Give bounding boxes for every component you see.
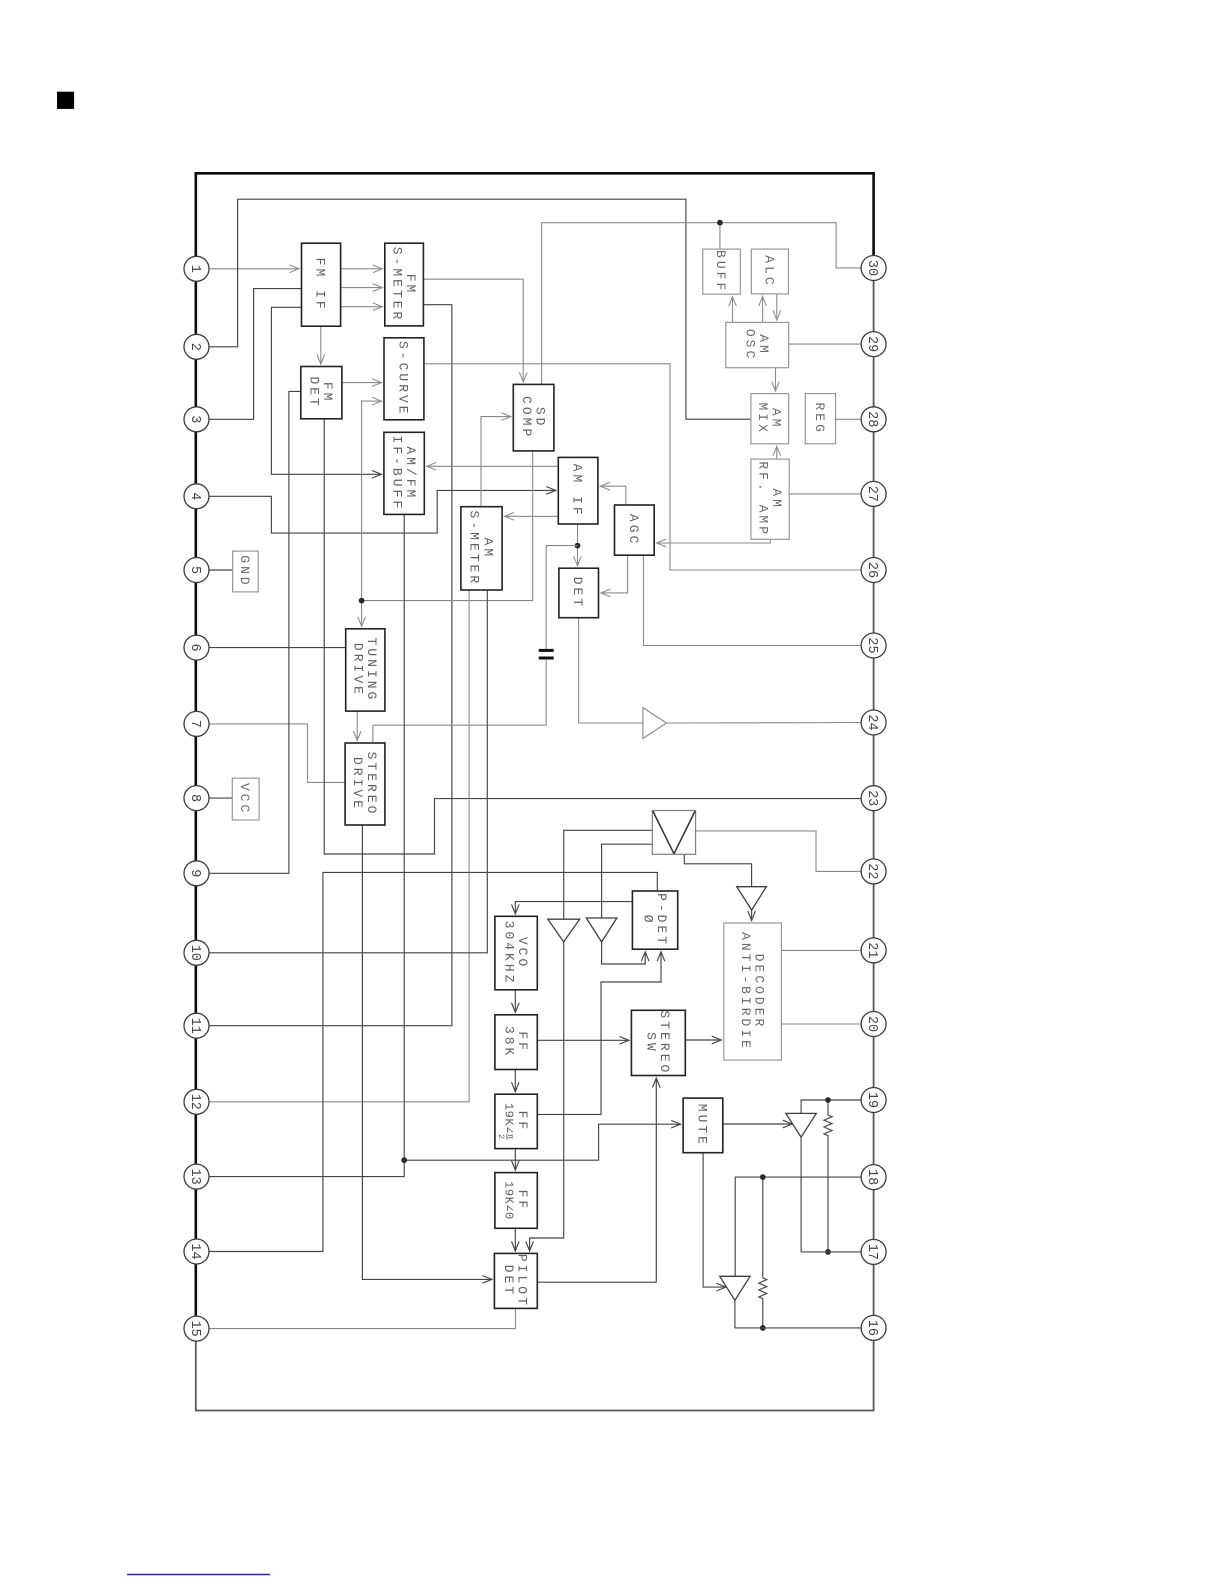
svg-text:REG: REG: [812, 402, 827, 434]
svg-text:12: 12: [187, 1094, 202, 1110]
block FF 19K pi/2: [495, 1094, 537, 1148]
pin 30: [861, 256, 886, 281]
wire inverter B3 to DECODER: [751, 910, 753, 920]
wire pin7 to STEREO DRIVE: [197, 724, 346, 783]
pin 11: [184, 1013, 209, 1038]
block GND: [233, 551, 259, 592]
pin 29: [861, 332, 886, 357]
wire DECODER to pin21: [781, 949, 860, 951]
junction pin16 node: [760, 1325, 766, 1331]
wire amplifier A1 to pin24: [667, 722, 874, 725]
wire AM IF to DET: [577, 524, 579, 566]
wire amplifier A2 to pin19: [801, 1100, 874, 1113]
amplifier A3: [720, 1276, 750, 1300]
wire SD COMP to tuning net: [362, 451, 533, 601]
junction tuning net: [359, 598, 365, 604]
pin 10: [184, 940, 209, 965]
wire pin3 to FM IF: [197, 289, 302, 420]
pin 5: [184, 558, 209, 583]
pin 7: [184, 711, 209, 736]
block VCC: [232, 778, 259, 820]
block AM S-METER: [461, 507, 502, 590]
svg-text:17: 17: [864, 1244, 879, 1260]
svg-text:8: 8: [187, 794, 202, 802]
inverter B3: [737, 887, 767, 910]
wire AM OSC to AM MIX: [775, 368, 777, 391]
pin 24: [861, 710, 886, 735]
wire AM IF to AM S-METER: [505, 515, 559, 517]
svg-text:11: 11: [187, 1018, 202, 1034]
wire AM S-METER to pin10: [197, 590, 488, 953]
svg-text:S-CURVE: S-CURVE: [395, 341, 410, 417]
block TUNING DRIVE: [346, 629, 385, 711]
wire resistor R2 to pin16 net: [762, 1300, 764, 1328]
IC outline (thick part): [196, 173, 874, 1338]
block STEREO SW: [631, 1010, 685, 1075]
svg-text:13: 13: [187, 1168, 202, 1184]
wire FM IF to FM S-METER 3: [341, 306, 383, 308]
wire TUNING DRIVE to STEREO DRIVE: [356, 711, 358, 740]
block P-DET: [632, 891, 677, 949]
wire node to capacitor C1: [546, 546, 577, 649]
wire amplifier A3 to pin16 net: [734, 1300, 736, 1328]
wire pin8 to VCC: [197, 797, 233, 799]
capacitor C1: [539, 650, 554, 658]
svg-text:19K∠: 19K∠: [501, 1103, 515, 1134]
svg-text:ALC: ALC: [761, 255, 776, 287]
svg-text:1: 1: [187, 265, 202, 273]
wire FF 38K to FF 19K-pi2: [514, 1070, 516, 1092]
wire AM OSC to ALC: [762, 296, 764, 322]
svg-text:18: 18: [864, 1169, 879, 1185]
svg-text:30: 30: [864, 260, 879, 276]
pin 25: [861, 633, 886, 658]
block AM RF AMP: [751, 459, 789, 539]
svg-text:4: 4: [187, 492, 202, 500]
wire FF 19K-pi2 to FF 19K-0: [514, 1149, 516, 1171]
block REG: [805, 394, 835, 444]
svg-text:20: 20: [864, 1016, 879, 1032]
wire FM IF to FM S-METER 2: [341, 287, 383, 289]
svg-text:2: 2: [187, 343, 202, 351]
block FM DET: [301, 367, 342, 419]
wire AGC to DET: [601, 555, 628, 593]
wire MUTE to amplifier A2: [723, 1123, 793, 1125]
wire pin9 to FM DET: [197, 391, 301, 873]
wire mute node to MUTE: [404, 1124, 680, 1160]
wire pin2 to AM MIX: [197, 199, 751, 419]
pin 17: [861, 1239, 886, 1264]
pin 26: [861, 558, 886, 583]
footer rule: [127, 1574, 270, 1576]
filter FL1: [652, 811, 695, 855]
wire pin17 to amplifier A2: [801, 1251, 874, 1253]
pin 28: [861, 407, 886, 432]
pin 2: [184, 334, 209, 359]
svg-text:STEREODRIVE: STEREODRIVE: [350, 752, 379, 817]
wire pin4 to AM IF: [197, 490, 556, 533]
wire inverter B1 to PILOT DET: [530, 942, 564, 1251]
svg-text:19: 19: [864, 1092, 879, 1108]
wire AM OSC to BUFF: [732, 297, 734, 323]
IC outline (thin part): [196, 268, 874, 1411]
pin 14: [184, 1239, 209, 1264]
svg-text:25: 25: [864, 637, 879, 653]
block BUFF: [703, 249, 741, 294]
wire tuning net to TUNING DRIVE: [361, 601, 363, 627]
wire tuning net to S-CURVE: [362, 401, 382, 600]
block DECODER ANTI-BIRDIE: [724, 923, 782, 1060]
wire AM RF AMP to pin27: [789, 493, 861, 495]
block AM OSC: [726, 322, 789, 367]
svg-text:15: 15: [187, 1320, 202, 1336]
block SD COMP: [513, 384, 554, 451]
wire VCO to FF 38K: [514, 990, 516, 1013]
wire filter to inverter B2: [602, 844, 653, 918]
svg-text:TUNINGDRIVE: TUNINGDRIVE: [351, 638, 380, 703]
junction pin18 node: [760, 1174, 766, 1180]
wire AM S-METER to SD COMP: [481, 417, 511, 507]
wire ALC to AM OSC: [776, 294, 778, 320]
svg-text:29: 29: [864, 336, 879, 352]
svg-text:23: 23: [864, 790, 879, 806]
pin 9: [184, 861, 209, 886]
svg-text:26: 26: [864, 562, 879, 578]
wire pin14 to P-DET: [197, 872, 658, 1251]
pin 21: [861, 938, 886, 963]
junction AM IF-DET node: [575, 543, 581, 549]
wire capacitor C1 to STEREO DRIVE: [373, 660, 546, 743]
block VCO 304KHZ: [495, 916, 537, 990]
wire P-DET to VCO: [515, 902, 632, 914]
wire PILOT DET to STEREO SW: [537, 1078, 656, 1282]
amplifier A2: [786, 1113, 816, 1137]
wire pin18 to amplifier A3: [735, 1177, 873, 1276]
svg-text:5: 5: [187, 566, 202, 574]
svg-text:6: 6: [187, 644, 202, 652]
block AM/FM IF-BUFF: [384, 432, 424, 514]
wire FM IF to FM DET: [320, 326, 322, 364]
svg-text:MUTE: MUTE: [694, 1104, 709, 1147]
junction BUFF node: [717, 220, 723, 226]
wire pin15 to PILOT DET: [197, 1308, 516, 1328]
svg-text:DET: DET: [570, 577, 585, 609]
inverter B1: [548, 919, 580, 942]
pin 8: [184, 786, 209, 811]
wire AM S-METER to pin12: [197, 590, 470, 1102]
wire STEREO SW to DECODER: [685, 1039, 721, 1041]
wire AM RF AMP to AM MIX: [776, 446, 778, 459]
svg-text:GND: GND: [237, 555, 252, 587]
pin 22: [861, 859, 886, 884]
junction pin19 node: [825, 1097, 831, 1103]
block AM IF: [558, 457, 598, 524]
wire pin16 to amplifier A3: [735, 1327, 874, 1329]
svg-text:VCC: VCC: [237, 783, 252, 815]
wire pin13 to mute node: [197, 1160, 405, 1176]
pin 19: [861, 1088, 886, 1113]
wire FF 38K to STEREO SW: [537, 1039, 629, 1041]
wire amplifier A2 to pin17 net: [800, 1137, 802, 1252]
wire FM IF to AM/FM IF-BUFF: [271, 307, 381, 474]
block DET: [559, 568, 599, 618]
wire SD COMP to pin30: [542, 223, 861, 385]
pin 15: [184, 1316, 209, 1341]
wire AM/FM IF-BUFF to mute node: [403, 514, 405, 1160]
pin 23: [861, 786, 886, 811]
wire AM IF to AM-FM IF-BUFF: [427, 465, 559, 467]
wire FM DET to S-CURVE: [342, 382, 382, 384]
junction pin17 node: [825, 1249, 831, 1255]
wire pin18 node to resistor R2: [762, 1177, 764, 1276]
pin 6: [184, 635, 209, 660]
wire DECODER to pin20: [781, 1023, 860, 1025]
svg-text:2: 2: [496, 1134, 506, 1139]
svg-text:16: 16: [864, 1320, 879, 1336]
wire FM IF to FM S-METER 1: [341, 268, 383, 270]
block AGC: [615, 505, 655, 555]
resistor R2: [759, 1276, 767, 1300]
block ALC: [751, 249, 788, 294]
wire FM S-METER to SD COMP: [423, 279, 523, 382]
svg-text:BUFF: BUFF: [713, 250, 728, 293]
svg-text:9: 9: [187, 869, 202, 877]
wire S-CURVE to pin26: [424, 364, 874, 570]
svg-text:AM/FMIF-BUFF: AM/FMIF-BUFF: [389, 436, 418, 512]
wire pin5 to GND: [197, 569, 233, 571]
pin 1: [184, 256, 209, 281]
svg-text:27: 27: [864, 486, 879, 502]
wire DET to amplifier A1: [579, 618, 643, 723]
pin 12: [184, 1089, 209, 1114]
block FM IF: [302, 243, 341, 326]
wire MUTE to amplifier A3: [703, 1153, 726, 1287]
pin 16: [861, 1315, 886, 1340]
wire node to BUFF: [719, 223, 721, 249]
pin 13: [184, 1164, 209, 1189]
wire pin6 to TUNING DRIVE: [197, 647, 346, 649]
wire resistor R1 to pin17 net: [827, 1137, 829, 1252]
svg-text:14: 14: [187, 1243, 202, 1259]
svg-text:28: 28: [864, 411, 879, 427]
svg-text:AM IF: AM IF: [570, 464, 585, 518]
wire STEREO DRIVE to PILOT DET: [362, 825, 492, 1279]
block S-CURVE: [384, 338, 424, 420]
wire FF 19K-pi2 to P-DET: [537, 952, 661, 1115]
svg-text:24: 24: [864, 714, 879, 730]
svg-text:21: 21: [864, 942, 879, 958]
wire filter to inverter B3: [684, 854, 751, 886]
wire FM DET to pin23: [324, 419, 873, 854]
block FM S-METER: [385, 243, 424, 326]
block FF 38K: [495, 1015, 537, 1070]
wire inverter B2 to P-DET: [602, 942, 646, 964]
svg-text:22: 22: [864, 863, 879, 879]
inverter B2: [586, 918, 617, 942]
title square: [57, 92, 74, 109]
block STEREO DRIVE: [345, 743, 385, 825]
block PILOT DET: [494, 1253, 537, 1308]
pin 20: [861, 1012, 886, 1037]
wire pin1 to FM IF input: [197, 268, 300, 270]
junction mute node: [401, 1157, 407, 1163]
wire filter to pin22: [696, 831, 874, 872]
wire REG to pin28: [836, 418, 861, 420]
block FF 19K 0: [495, 1173, 537, 1229]
wire AGC to AM IF: [600, 486, 626, 505]
block MUTE: [683, 1098, 723, 1153]
block AM MIX: [751, 394, 789, 444]
pin 27: [861, 481, 886, 506]
resistor R1: [824, 1113, 832, 1137]
amplifier A1: [643, 708, 667, 739]
wire filter to inverter B1: [564, 830, 653, 919]
wire AM RF AMP to AGC: [657, 539, 771, 543]
svg-text:10: 10: [187, 945, 202, 961]
wire pin11 to FM S-METER: [197, 305, 452, 1026]
wire AGC to pin25: [644, 555, 874, 645]
wire FF 19K-0 to PILOT DET: [514, 1228, 516, 1251]
svg-text:7: 7: [187, 720, 202, 728]
wire pin19 node to resistor R1: [827, 1100, 829, 1113]
pin 18: [861, 1165, 886, 1190]
pin 3: [184, 407, 209, 432]
wire AM OSC to pin29: [789, 343, 861, 345]
svg-text:FM IF: FM IF: [313, 258, 328, 312]
svg-text:AGC: AGC: [626, 514, 641, 546]
pin 4: [184, 484, 209, 509]
svg-text:3: 3: [187, 415, 202, 423]
svg-text:FF: FF: [515, 1111, 530, 1133]
